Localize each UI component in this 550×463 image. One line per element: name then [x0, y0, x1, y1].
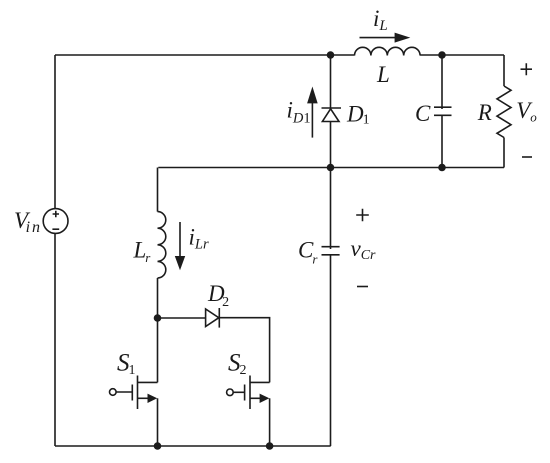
node S1 source bottom — [154, 442, 162, 450]
wire right rail lower — [503, 138, 505, 168]
wire Cr bottom — [330, 255, 332, 446]
diode D2 — [206, 309, 219, 327]
wire Cr top — [330, 168, 332, 250]
label plus Vo — [521, 63, 533, 75]
wire left rail lower — [54, 233, 56, 446]
wire C top — [441, 55, 443, 109]
wire D1 anode to top node — [330, 55, 332, 108]
wire left rail upper — [54, 55, 56, 209]
wire S1 source to bottom — [157, 398, 159, 446]
node top-left of L — [327, 51, 335, 59]
label plus vCr — [356, 209, 369, 221]
capacitor C — [434, 107, 452, 115]
wire top-left horizontal — [55, 54, 355, 56]
wire node to S1 drain — [157, 318, 159, 382]
node D1 bottom — [327, 164, 335, 172]
wire C bottom — [441, 115, 443, 167]
node S2 source bottom — [266, 442, 274, 450]
transistor S2 — [250, 381, 270, 383]
svg-text:L: L — [376, 62, 390, 87]
svg-text:R: R — [477, 100, 492, 125]
transistor S1 — [138, 381, 158, 383]
node C bottom — [438, 164, 446, 172]
wire middle horizontal — [158, 167, 504, 169]
wire Lr top corner — [157, 168, 159, 212]
wire node to D2 — [158, 317, 206, 319]
wire bottom rail — [55, 445, 331, 447]
wire top-right horizontal — [420, 54, 504, 56]
capacitor Cr — [322, 247, 340, 255]
label minus Vo — [522, 156, 532, 158]
resistor R — [497, 86, 511, 138]
arrow iL — [360, 37, 397, 39]
node Lr-D2 junction — [154, 314, 162, 322]
arrow iD1 — [311, 103, 313, 138]
wire D2 to S2 drain — [219, 318, 269, 383]
inductor Lr — [158, 212, 166, 278]
node top-right of L — [438, 51, 446, 59]
wire D1 to middle node — [330, 122, 332, 168]
wire Lr to node — [157, 278, 159, 318]
inductor L — [355, 47, 421, 55]
arrow iLr — [179, 222, 181, 257]
wire S2 source to bottom — [269, 398, 271, 446]
label minus vCr — [357, 286, 368, 288]
wire right rail upper — [503, 55, 505, 86]
svg-text:C: C — [415, 101, 431, 126]
voltage source Vin — [43, 209, 68, 234]
diode D1 — [322, 107, 342, 109]
